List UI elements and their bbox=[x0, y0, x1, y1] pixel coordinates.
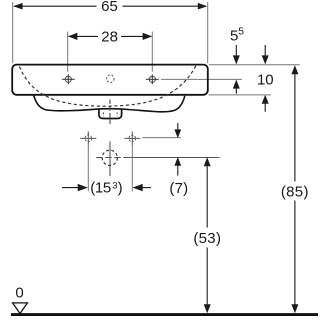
dimension 28 extension line right bbox=[151, 32, 153, 72]
optional middle tap hole (dashed circle) bbox=[107, 75, 115, 83]
drain vertical centreline upper bbox=[109, 100, 111, 127]
tap hole left bbox=[62, 74, 75, 84]
basin bottom edge extension line bbox=[209, 94, 271, 96]
svg-text:(53): (53) bbox=[193, 230, 221, 247]
dimension 65 arrow left bbox=[13, 3, 22, 10]
dimension (53) top arrow bbox=[204, 157, 211, 166]
svg-text:): ) bbox=[118, 180, 123, 197]
dimension 65 arrow right bbox=[198, 3, 207, 10]
tap hole right bbox=[146, 74, 159, 84]
svg-text:65: 65 bbox=[101, 0, 118, 15]
drain vertical centreline lower bbox=[109, 142, 111, 177]
dimension (15_3) extension line left bbox=[87, 145, 89, 191]
dimension (53) bottom arrow bbox=[204, 304, 211, 313]
dimension 10 bottom arrow bbox=[262, 95, 269, 104]
fixing hole right bbox=[124, 131, 140, 145]
dimension 65 extension line right bbox=[207, 2, 209, 63]
dimension 28 arrow left bbox=[68, 33, 77, 40]
dimension (85) line bbox=[294, 74, 296, 182]
svg-text:0: 0 bbox=[15, 285, 23, 302]
dimension (7) bottom arrow bbox=[174, 157, 181, 166]
floor line bbox=[11, 313, 318, 316]
dimension 5.5 bottom arrow bbox=[233, 80, 240, 89]
svg-text:(7): (7) bbox=[169, 180, 188, 197]
dimension (85) bottom arrow bbox=[291, 304, 298, 313]
drain horizontal centreline bbox=[96, 157, 129, 159]
washbasin inner bowl hidden contour (dashed) bbox=[20, 65, 197, 106]
dimension 5.5 top arrow bbox=[235, 45, 237, 58]
tap hole centre extension line bbox=[161, 78, 242, 80]
dimension (85) top arrow bbox=[291, 65, 298, 74]
svg-text:(15: (15 bbox=[90, 180, 111, 197]
dimension 28 extension line left bbox=[67, 32, 69, 72]
washbasin bowl underside bbox=[34, 95, 185, 112]
dimension 28 line bbox=[69, 35, 99, 37]
washbasin rim outline bbox=[12, 65, 208, 95]
datum triangle bbox=[13, 303, 28, 314]
drain hole (dashed circle) bbox=[102, 150, 117, 165]
dimension (53) line bbox=[206, 166, 208, 228]
dimension (15_3) left arrow bbox=[62, 187, 79, 189]
dimension 65 line bbox=[14, 5, 97, 7]
dimension 10 top arrow bbox=[264, 45, 266, 58]
dimension 28 arrow right bbox=[143, 33, 152, 40]
fixing hole to (7) connector line bbox=[142, 137, 181, 139]
drain trap outlet bbox=[99, 109, 122, 118]
basin top edge extension line bbox=[209, 64, 300, 66]
fixing hole left bbox=[80, 131, 96, 145]
dimension (15_3) extension line right bbox=[131, 145, 133, 191]
dimension (7) top arrow bbox=[177, 123, 179, 131]
dimension 65 extension line left bbox=[12, 2, 14, 63]
drain trap hidden inner lines bbox=[102, 112, 104, 116]
svg-text:(85): (85) bbox=[281, 183, 309, 200]
dimension (15_3) right arrow bbox=[133, 184, 143, 191]
svg-text:10: 10 bbox=[257, 72, 274, 89]
svg-text:28: 28 bbox=[101, 28, 118, 45]
